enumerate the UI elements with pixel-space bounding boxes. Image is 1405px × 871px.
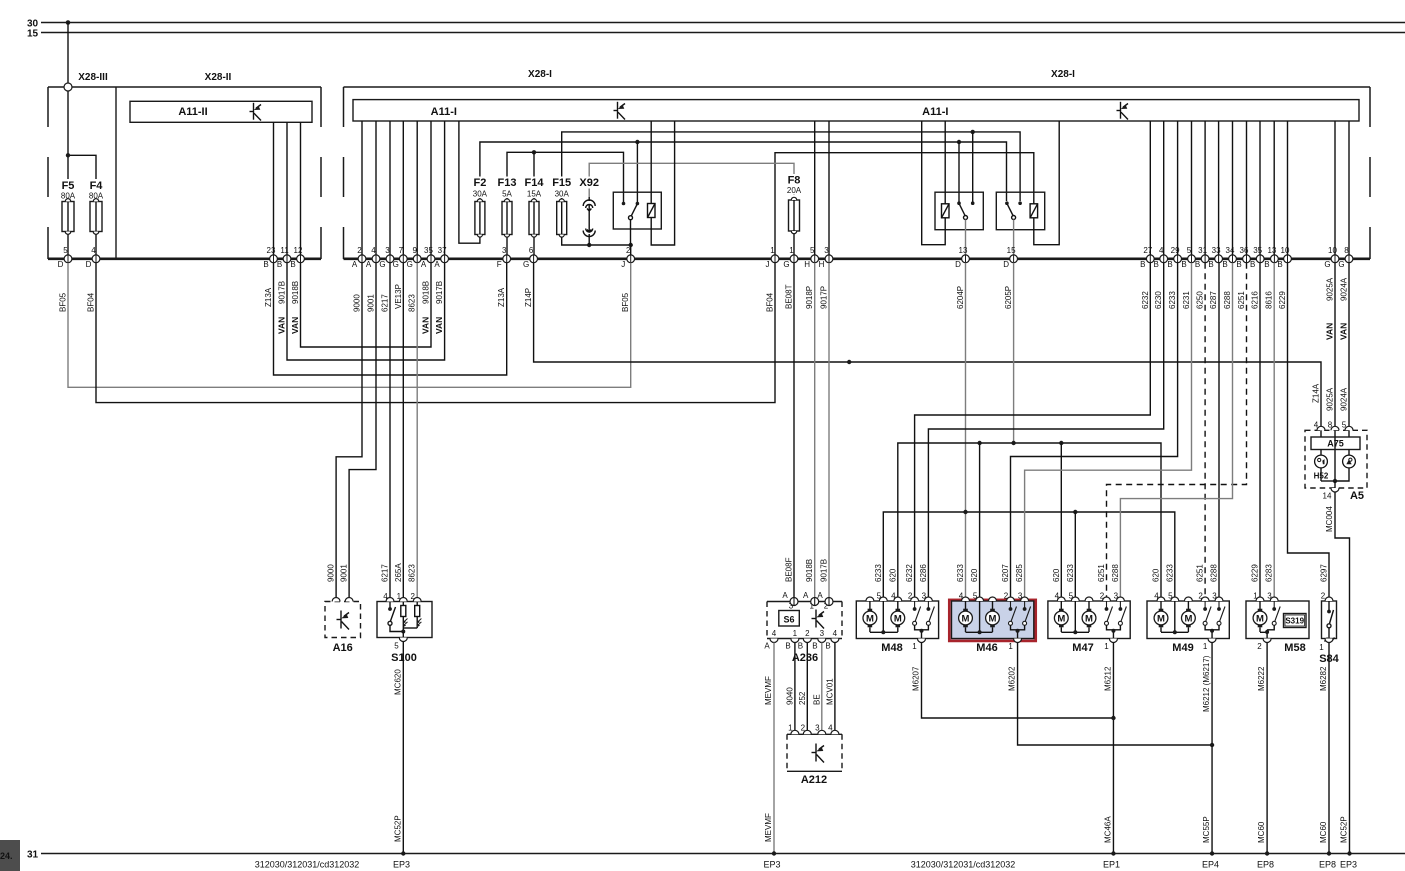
svg-text:H: H xyxy=(804,260,810,269)
wire BF05 (F5 D5 to J2) xyxy=(68,263,631,388)
svg-text:X28-III: X28-III xyxy=(78,72,108,83)
node on Z14P xyxy=(847,360,851,364)
horn 2 xyxy=(1321,450,1355,482)
svg-text:M6222: M6222 xyxy=(1257,666,1266,691)
wire 6232 (B27 to M48 pin2) xyxy=(915,263,1151,598)
relay K2 output wire to pin D13 xyxy=(965,220,967,256)
wire F14 top riser xyxy=(533,152,535,199)
svg-text:35: 35 xyxy=(424,246,433,255)
svg-text:X92: X92 xyxy=(579,177,599,189)
wire 620 riser to M47 pin4 xyxy=(1060,443,1062,597)
svg-text:5: 5 xyxy=(63,246,68,255)
svg-text:1: 1 xyxy=(912,642,917,651)
svg-text:9018B: 9018B xyxy=(422,281,431,304)
wire BF04 (F4 D4 to J1) xyxy=(96,263,775,403)
M47 box xyxy=(1048,601,1130,639)
wire VAN 9024A (G8 to A75 pin5) xyxy=(1348,263,1350,427)
svg-text:D: D xyxy=(86,260,92,269)
svg-text:A11-II: A11-II xyxy=(178,106,207,118)
M58 switch xyxy=(1272,601,1280,625)
svg-text:MC60: MC60 xyxy=(1319,821,1328,843)
svg-text:BE08T: BE08T xyxy=(785,284,794,309)
wire VAN 9018B (B12 to A35) xyxy=(301,263,432,347)
svg-text:1: 1 xyxy=(1104,642,1109,651)
svg-text:7: 7 xyxy=(399,246,404,255)
wire 9001 (A4 to A16) xyxy=(349,263,376,598)
svg-text:G: G xyxy=(783,260,789,269)
svg-text:M: M xyxy=(894,613,902,624)
wire pin J1 to relay K3 coil rail xyxy=(775,153,1034,255)
node 620/M46 pin5 xyxy=(977,441,981,445)
svg-text:9018B: 9018B xyxy=(805,559,814,582)
svg-text:F2: F2 xyxy=(473,177,486,189)
relay K3 output wire to pin D15 xyxy=(1013,220,1015,256)
svg-text:G: G xyxy=(523,260,529,269)
svg-text:BF04: BF04 xyxy=(87,292,96,312)
svg-text:H52: H52 xyxy=(1314,472,1329,481)
wire F5 to pin D5 xyxy=(67,234,69,255)
svg-text:312030/312031/cd312032: 312030/312031/cd312032 xyxy=(911,860,1016,870)
pin 10/B x=1287.5 xyxy=(1277,246,1291,269)
wire 6251 (B36 to M47 pin2) xyxy=(1107,263,1247,598)
svg-text:6286: 6286 xyxy=(919,564,928,582)
svg-text:9024A: 9024A xyxy=(1340,277,1349,301)
svg-text:29: 29 xyxy=(1171,246,1180,255)
A11-I drive arrow 2 xyxy=(1117,102,1129,120)
svg-text:B: B xyxy=(1208,260,1213,269)
svg-text:B: B xyxy=(825,642,830,651)
bus 15 xyxy=(41,32,1405,34)
pin 10/G x=1335 xyxy=(1324,246,1339,269)
switch S100 box xyxy=(377,602,432,638)
wire relay K2 right contact drop xyxy=(972,132,974,203)
svg-text:B: B xyxy=(1250,260,1255,269)
pin 11/B x=287 xyxy=(277,246,291,269)
svg-text:6233: 6233 xyxy=(874,564,883,582)
svg-text:9025A: 9025A xyxy=(1326,277,1335,301)
wire 9000 (A2 to A16) xyxy=(336,263,362,598)
svg-text:1: 1 xyxy=(1319,643,1324,652)
svg-text:265A: 265A xyxy=(394,563,403,582)
pin 35/B x=1260.2 xyxy=(1250,246,1264,269)
switch S84 box xyxy=(1322,601,1337,639)
svg-text:4: 4 xyxy=(1159,246,1164,255)
svg-text:2: 2 xyxy=(626,246,631,255)
svg-text:M58: M58 xyxy=(1284,642,1305,654)
svg-text:15A: 15A xyxy=(527,190,542,199)
svg-text:F13: F13 xyxy=(498,177,517,189)
svg-text:A: A xyxy=(782,591,788,600)
wire MEVMF (A236 pinA4 down to bus31) xyxy=(773,643,775,854)
fuse F4 labels xyxy=(84,179,108,200)
svg-text:6204P: 6204P xyxy=(956,286,965,309)
svg-text:VAN: VAN xyxy=(1325,323,1335,340)
A16 drive arrow xyxy=(337,611,350,630)
svg-text:EP3: EP3 xyxy=(393,860,410,870)
wire M6212 (M6217)/MC55P (M49 to EP4) xyxy=(1211,643,1213,854)
svg-text:B: B xyxy=(1140,260,1145,269)
svg-text:F14: F14 xyxy=(525,177,545,189)
fuse F2 xyxy=(475,199,485,237)
svg-text:9017B: 9017B xyxy=(435,281,444,304)
svg-text:M6212 (M6217): M6212 (M6217) xyxy=(1202,655,1211,712)
svg-text:6287: 6287 xyxy=(1209,291,1218,309)
svg-text:B: B xyxy=(1277,260,1282,269)
svg-text:1: 1 xyxy=(770,246,775,255)
svg-text:X28-I: X28-I xyxy=(528,69,552,80)
svg-text:1: 1 xyxy=(793,629,798,638)
wire M6207 (M48 to EP1 rail) xyxy=(922,643,1114,719)
svg-text:4: 4 xyxy=(371,246,376,255)
svg-text:620: 620 xyxy=(1152,568,1161,582)
wire 620 riser to M46 pin5 xyxy=(979,443,981,597)
svg-text:MC52P: MC52P xyxy=(1340,816,1349,843)
pin 3/F x=506.7 xyxy=(497,246,511,269)
node 6233/M47 pin5 xyxy=(1073,510,1077,514)
S100 lamp element 2 xyxy=(403,602,421,629)
S100 switch contact xyxy=(388,602,403,632)
wire VAN 9017B (B11 to A37) xyxy=(287,263,445,360)
svg-text:6288: 6288 xyxy=(1111,564,1120,582)
svg-text:6230: 6230 xyxy=(1154,291,1163,309)
wire F15 bottom to pin J2 rail xyxy=(562,237,631,245)
svg-text:6229: 6229 xyxy=(1278,291,1287,309)
svg-text:S6: S6 xyxy=(783,615,794,625)
svg-text:312030/312031/cd312032: 312030/312031/cd312032 xyxy=(255,860,360,870)
node 620/6205P xyxy=(1011,441,1015,445)
svg-text:6231: 6231 xyxy=(1182,291,1191,309)
wire MCV01 xyxy=(834,643,836,731)
svg-text:A: A xyxy=(803,591,809,600)
svg-text:10: 10 xyxy=(1328,246,1337,255)
wire 6231/6285 (B5 to M46 pin3) xyxy=(1025,263,1192,598)
fuse F2 labels xyxy=(467,177,493,199)
fuse F8 xyxy=(789,197,800,234)
A236 drive arrow xyxy=(812,610,825,629)
svg-text:9001: 9001 xyxy=(340,564,349,582)
svg-text:6205P: 6205P xyxy=(1004,286,1013,309)
svg-text:EP8: EP8 xyxy=(1319,860,1336,870)
svg-text:6283: 6283 xyxy=(1265,564,1274,582)
A75 inner box xyxy=(1320,430,1322,437)
pin 2/J x=630.7 xyxy=(621,246,634,269)
svg-text:1: 1 xyxy=(789,246,794,255)
svg-text:6233: 6233 xyxy=(1168,291,1177,309)
svg-text:9000: 9000 xyxy=(327,564,336,582)
M49 internal rail xyxy=(1161,601,1188,632)
svg-text:A: A xyxy=(366,260,372,269)
switch S6 box in A236 xyxy=(779,611,800,627)
wire 6287/6288 (B33 to M49 pin3) xyxy=(1218,263,1220,598)
M47 switch output to pin 1 xyxy=(1107,625,1121,642)
wire 6233/6207 (B29 to M46 pin2) xyxy=(1011,263,1178,598)
svg-text:M: M xyxy=(866,613,874,624)
pin 5/B x=1191.5 xyxy=(1181,246,1195,269)
svg-text:M6202: M6202 xyxy=(1008,666,1017,691)
svg-text:6288: 6288 xyxy=(1210,564,1219,582)
svg-text:G: G xyxy=(1324,260,1330,269)
relay K2 contacts and blade xyxy=(957,201,974,219)
svg-text:2: 2 xyxy=(357,246,362,255)
svg-text:35: 35 xyxy=(1253,246,1262,255)
relay K3 contacts and blade xyxy=(1005,201,1022,219)
svg-text:M: M xyxy=(1057,613,1065,624)
svg-text:BF05: BF05 xyxy=(621,292,630,312)
svg-text:11: 11 xyxy=(280,246,289,255)
svg-text:4: 4 xyxy=(772,629,777,638)
svg-text:9000: 9000 xyxy=(353,294,362,312)
S84 actuation ticks xyxy=(1325,638,1335,642)
svg-text:M46: M46 xyxy=(976,642,997,654)
wires A11-I to pins B27 B4 B29 B5 B31 B33 B34 B36 B35 B13 B10 xyxy=(1150,121,1287,255)
connector X28-II / X28-III bottom edge xyxy=(48,257,321,260)
M48 motor 2 xyxy=(891,601,905,632)
S84 switch contact xyxy=(1327,601,1334,643)
svg-text:S100: S100 xyxy=(391,652,417,664)
svg-text:EP4: EP4 xyxy=(1202,860,1219,870)
M48 switch output to pin 1 xyxy=(915,625,929,642)
S100 lamp element 1 xyxy=(401,602,408,632)
wire VAN 9025A (G10 to A75 pin8) xyxy=(1334,263,1336,427)
svg-text:BF04: BF04 xyxy=(766,292,775,312)
svg-text:A: A xyxy=(434,260,440,269)
wire relay K1 right contact drop xyxy=(636,142,638,204)
svg-text:D: D xyxy=(58,260,64,269)
M47 internal rail xyxy=(1061,601,1089,632)
wire 6217 (G3 to S100 pin4) xyxy=(389,263,391,598)
svg-text:1: 1 xyxy=(1008,642,1013,651)
svg-text:M: M xyxy=(1184,613,1192,624)
fuse F8 labels xyxy=(782,174,806,195)
M46 motor 1 xyxy=(959,601,973,632)
M48 box xyxy=(856,601,938,639)
M48 motor 1 xyxy=(863,601,877,632)
node: relay K2 left contact tap on F2 rail xyxy=(957,140,961,144)
svg-text:F4: F4 xyxy=(90,180,104,192)
node 6233/6204P xyxy=(963,510,967,514)
wire M6202 (M46 to EP4 rail) xyxy=(1018,643,1213,746)
M46 switch output to pin 1 xyxy=(1011,625,1025,642)
pin 33/B x=1218.6 xyxy=(1208,246,1222,269)
node EP1 xyxy=(1111,851,1115,855)
relay K1 box xyxy=(613,192,661,229)
svg-text:9001: 9001 xyxy=(367,294,376,312)
wire M6282/MC60 (S84 to EP8) xyxy=(1328,643,1330,854)
svg-text:B: B xyxy=(290,260,295,269)
svg-text:620: 620 xyxy=(888,568,897,582)
svg-text:MC55P: MC55P xyxy=(1202,816,1211,843)
node EP8 xyxy=(1265,851,1269,855)
svg-text:A236: A236 xyxy=(792,652,818,664)
bus 31 xyxy=(41,853,1405,855)
connector X28-I bottom edge xyxy=(344,257,1371,260)
svg-text:27: 27 xyxy=(1143,246,1152,255)
svg-text:F8: F8 xyxy=(788,175,801,187)
svg-text:9025A: 9025A xyxy=(1326,387,1335,411)
svg-text:B: B xyxy=(277,260,282,269)
page corner marker xyxy=(0,840,20,871)
svg-text:MC60: MC60 xyxy=(1257,821,1266,843)
wire relay K2 left contact drop xyxy=(958,142,960,203)
node EP4 xyxy=(1210,851,1214,855)
svg-text:A: A xyxy=(352,260,358,269)
svg-text:9040: 9040 xyxy=(785,687,794,705)
svg-text:23: 23 xyxy=(267,246,276,255)
pin 27/B x=1150.3 xyxy=(1140,246,1154,269)
M48 switch 2 xyxy=(926,601,934,625)
node: relay K1 contact tap on F2 rail xyxy=(635,140,639,144)
svg-text:B: B xyxy=(785,642,790,651)
wire VE13P/265A (G7 to S100 pin1) xyxy=(402,263,404,598)
svg-text:31: 31 xyxy=(27,850,39,861)
M49 motor 2 xyxy=(1182,601,1196,632)
fuse F5 labels xyxy=(56,179,80,200)
svg-text:20A: 20A xyxy=(787,186,802,195)
M46 motor 2 xyxy=(986,601,1000,632)
control unit A16 box xyxy=(325,602,361,638)
svg-text:24.: 24. xyxy=(0,851,13,861)
svg-text:M47: M47 xyxy=(1072,642,1093,654)
wire bus30 to F5/F4 xyxy=(68,23,96,198)
svg-text:M: M xyxy=(1085,613,1093,624)
svg-text:D: D xyxy=(955,260,961,269)
svg-text:B: B xyxy=(1264,260,1269,269)
svg-text:M6282: M6282 xyxy=(1319,666,1328,691)
node M6202 join xyxy=(1210,743,1214,747)
svg-text:B: B xyxy=(812,642,817,651)
svg-text:13: 13 xyxy=(959,246,968,255)
M46 box xyxy=(952,601,1034,639)
pin 31/B x=1205.1 xyxy=(1195,246,1209,269)
svg-text:M: M xyxy=(962,613,970,624)
node: junction on bus 30 at F5 feed xyxy=(66,20,71,25)
svg-text:620: 620 xyxy=(1052,568,1061,582)
svg-text:8623: 8623 xyxy=(408,294,417,312)
svg-text:15: 15 xyxy=(27,29,39,40)
wire BE08T/BE08F (G1 to A236 pin3) xyxy=(793,263,795,598)
pin 8/G x=1349 xyxy=(1338,246,1353,269)
wires A11-I to pins H5 H3 xyxy=(815,121,829,255)
svg-text:6250: 6250 xyxy=(1196,291,1205,309)
pin 1/J x=775 xyxy=(766,246,779,269)
wire F8 bottom to pin G1 xyxy=(793,234,795,256)
svg-text:MEVMF: MEVMF xyxy=(764,813,773,842)
svg-text:Z14A: Z14A xyxy=(1312,383,1321,403)
svg-text:X28-I: X28-I xyxy=(1051,69,1075,80)
svg-text:G: G xyxy=(379,260,385,269)
pin 37/A x=444.6 xyxy=(434,246,448,269)
pin 4/A x=376 xyxy=(366,246,380,269)
svg-text:BE: BE xyxy=(812,694,821,705)
blower M58 box xyxy=(1246,601,1309,639)
wire relay K1 output to pin J2 xyxy=(630,245,632,255)
horn H52 xyxy=(1315,450,1328,482)
fuse F15 xyxy=(557,199,567,237)
svg-text:3: 3 xyxy=(385,246,390,255)
M46 switch 1 xyxy=(1009,601,1017,625)
svg-text:5: 5 xyxy=(1187,246,1192,255)
svg-text:B: B xyxy=(263,260,268,269)
node: relay K1 output join xyxy=(629,243,633,247)
svg-text:34: 34 xyxy=(1226,246,1235,255)
wire 252 xyxy=(806,643,808,731)
svg-text:1: 1 xyxy=(1203,642,1208,651)
relay K2 box xyxy=(935,192,983,230)
svg-text:M: M xyxy=(1157,613,1165,624)
pin bump X28-III top xyxy=(64,83,72,91)
wire 9018P/9018B (H5 to A236 pin1) xyxy=(814,263,816,598)
svg-text:8: 8 xyxy=(1344,246,1349,255)
svg-text:M6207: M6207 xyxy=(912,666,921,691)
svg-text:9017B: 9017B xyxy=(820,559,829,582)
A212 drive arrow xyxy=(812,744,825,763)
svg-text:MEVMF: MEVMF xyxy=(764,676,773,705)
svg-text:8623: 8623 xyxy=(408,564,417,582)
svg-text:6233: 6233 xyxy=(956,564,965,582)
svg-text:9018B: 9018B xyxy=(291,281,300,304)
wire F4 to pin D4 xyxy=(95,234,97,255)
svg-text:VAN: VAN xyxy=(277,317,287,334)
svg-text:A: A xyxy=(764,642,770,651)
pin 9/G x=417.2 xyxy=(407,246,422,269)
wire 6229/6297 (B10 to S84 pin2) xyxy=(1288,263,1330,598)
M58 motor xyxy=(1253,601,1267,632)
pin 5/H x=814.7 xyxy=(804,246,818,269)
svg-text:A: A xyxy=(421,260,427,269)
M49 switch output to pin 1 xyxy=(1205,625,1219,642)
wire MC004/MC52P (A5 to EP3) xyxy=(1335,492,1350,854)
M58 output to pin 2 xyxy=(1260,625,1274,642)
svg-text:H: H xyxy=(819,260,825,269)
svg-text:33: 33 xyxy=(1212,246,1221,255)
svg-text:M49: M49 xyxy=(1172,642,1193,654)
heater unit M46 highlight box xyxy=(949,600,1035,641)
M48 switch 1 xyxy=(913,601,921,625)
relay K3 box xyxy=(996,192,1044,230)
svg-text:A75: A75 xyxy=(1327,439,1344,449)
pin 13/B x=1274.4 xyxy=(1264,246,1278,269)
M46 internal rail xyxy=(966,601,993,632)
svg-text:S319: S319 xyxy=(1285,617,1304,626)
svg-text:3: 3 xyxy=(820,629,825,638)
wire Z14P/Z14A (G6 to A75 pin4) xyxy=(534,263,1321,427)
wire F15 top feed rail xyxy=(562,132,1020,201)
wire 6216/6229 (B35 to M58 pin1) xyxy=(1259,263,1261,598)
svg-text:6288: 6288 xyxy=(1223,291,1232,309)
wire 6233 rail (M48 pin5 to M49 pin5) xyxy=(883,512,1175,597)
wire 6250/6251 (B31 to M49 pin2) xyxy=(1204,263,1206,598)
svg-text:13: 13 xyxy=(1267,246,1276,255)
svg-text:EP8: EP8 xyxy=(1257,860,1274,870)
svg-text:MC46A: MC46A xyxy=(1104,816,1113,843)
pin 23/B x=273.5 xyxy=(263,246,277,269)
svg-text:6: 6 xyxy=(529,246,534,255)
svg-text:6251: 6251 xyxy=(1097,564,1106,582)
svg-text:6207: 6207 xyxy=(1001,564,1010,582)
wire M6222/MC60 (M58 to EP8) xyxy=(1266,643,1268,854)
svg-text:M6212: M6212 xyxy=(1104,666,1113,691)
M47 motor 2 xyxy=(1082,601,1096,632)
pin 7/G x=403.3 xyxy=(393,246,408,269)
svg-text:6217: 6217 xyxy=(381,564,390,582)
pin 29/B x=1177.6 xyxy=(1167,246,1181,269)
svg-text:5: 5 xyxy=(810,246,815,255)
svg-text:14: 14 xyxy=(1323,492,1332,501)
M47 motor 1 xyxy=(1054,601,1068,632)
svg-text:J: J xyxy=(766,260,770,269)
svg-text:2: 2 xyxy=(1257,642,1262,651)
svg-text:G: G xyxy=(407,260,413,269)
